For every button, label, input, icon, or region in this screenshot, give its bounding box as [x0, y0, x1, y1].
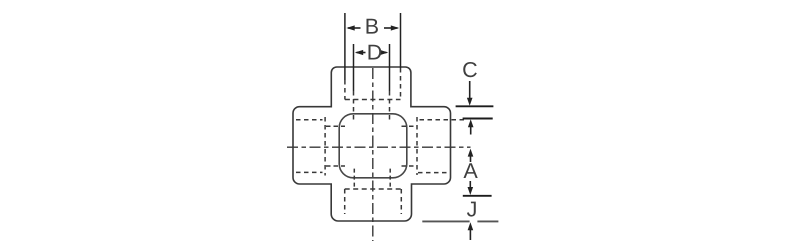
hidden thread line right arm top (extends right for C) [420, 119, 468, 121]
hidden bore line lower left (D) [353, 169, 355, 189]
hidden thread line right arm bottom [418, 172, 447, 174]
hidden bore stub right bottom [402, 165, 418, 167]
hidden thread line lower boss right [400, 189, 402, 214]
dimension J up arrow [468, 222, 474, 230]
hidden thread line upper boss right (B) [400, 68, 402, 100]
dimension C up arrow [468, 119, 474, 127]
dimension B right arrow [384, 27, 398, 29]
thread end line right arm [416, 117, 418, 175]
hidden bore line lower right (D) [389, 169, 391, 189]
dimension D extension line left [353, 44, 355, 91]
dimension A down arrow [469, 181, 471, 189]
label D [369, 45, 382, 60]
horizontal centerline [287, 146, 471, 148]
dimension C down arrow [469, 81, 471, 100]
hidden thread line left arm bottom [296, 171, 323, 173]
dimension B left arrow [348, 27, 361, 29]
label A [463, 163, 477, 178]
hidden thread line upper boss left (B) [344, 80, 346, 100]
hidden bore stub left top [326, 125, 345, 127]
central bore rounded square [339, 114, 407, 178]
hidden bore stub right top [402, 125, 418, 127]
label C [463, 62, 477, 77]
hidden bore line upper right (D) [389, 91, 391, 121]
cross fitting body outline [293, 67, 451, 221]
thread end line lower boss [345, 188, 402, 190]
dimension C reference line bottom [463, 118, 493, 120]
hidden bore line upper left (D) [353, 91, 355, 121]
thread end line left arm [324, 117, 326, 176]
label J [467, 202, 476, 217]
hidden thread line lower boss left [344, 189, 346, 214]
dimension C reference line top [456, 105, 494, 107]
dimension A up arrow [468, 149, 474, 157]
dimension D extension line right [389, 44, 391, 91]
hidden thread line left arm top [296, 119, 323, 121]
thread end line upper boss [345, 99, 401, 101]
hidden bore stub left bottom [326, 165, 345, 167]
dimension J reference line left segment [422, 220, 469, 222]
dimension B extension line left [344, 13, 346, 80]
dimension D left arrow [357, 52, 366, 54]
dimension A reference line [463, 195, 492, 197]
dimension B extension line right [400, 13, 402, 68]
dimension J reference line right segment [477, 220, 498, 222]
dimension D right arrow [381, 52, 387, 54]
vertical centerline [372, 68, 374, 241]
label B [366, 19, 377, 34]
